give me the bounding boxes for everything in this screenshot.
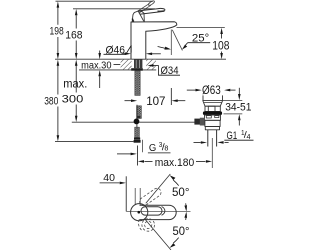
svg-text:3: 3 — [159, 140, 163, 149]
drain side knob — [194, 119, 200, 125]
svg-text:Ø63: Ø63 — [202, 85, 221, 97]
svg-text:198: 198 — [50, 26, 64, 38]
seal band — [203, 111, 222, 115]
dim 107 — [170, 88, 172, 105]
G3/8 leader arrow — [117, 153, 131, 155]
deck hatch left of shank — [121, 60, 132, 70]
svg-text:G: G — [149, 143, 156, 154]
lever ghost +50 — [140, 188, 161, 205]
svg-text:4: 4 — [247, 132, 251, 141]
25deg leader and arrow right — [185, 43, 187, 46]
svg-text:50°: 50° — [173, 225, 190, 238]
mounting nut — [131, 68, 143, 71]
lever pedestal — [132, 11, 144, 22]
dim max.180 — [137, 146, 139, 166]
dim 34-51 — [223, 99, 243, 101]
aerator stream line — [170, 30, 172, 56]
dim 380 below deck — [57, 66, 59, 95]
ref line top (lever raised top) — [56, 0, 154, 2]
svg-text:34-51: 34-51 — [225, 101, 251, 113]
drain flange cap — [203, 101, 223, 107]
hose tube below node — [136, 124, 138, 127]
O63 extension lines to flange — [202, 95, 204, 100]
drain centerline — [211, 138, 213, 168]
hidden verticals above ghost — [134, 188, 136, 205]
dim 168 — [75, 15, 77, 53]
faucet body and spout outline — [131, 22, 177, 60]
tailpipe — [207, 130, 209, 147]
drain neck — [205, 106, 220, 111]
plan body outline — [140, 205, 177, 219]
svg-text:50°: 50° — [172, 186, 190, 199]
svg-text:168: 168 — [65, 29, 82, 41]
white band — [205, 127, 219, 130]
ref line lever rest top — [73, 8, 155, 10]
hose end fitting — [134, 138, 140, 140]
rod linkage square — [137, 116, 140, 118]
svg-text:max.180: max.180 — [155, 157, 195, 169]
svg-text:380: 380 — [44, 95, 58, 107]
lever at rest — [138, 8, 165, 14]
lever ghost -50 — [139, 219, 155, 232]
rod node at hose — [134, 119, 140, 125]
pivot dot — [138, 211, 141, 214]
angle ray +50 — [146, 174, 171, 203]
svg-text:max.30: max.30 — [81, 61, 112, 72]
deck hatch right of shank — [146, 60, 156, 70]
hose end ext line — [142, 140, 144, 153]
svg-text:300: 300 — [62, 94, 84, 106]
svg-text:8: 8 — [164, 144, 168, 153]
plan body circle — [131, 204, 148, 221]
ref line 380 bottom — [55, 141, 134, 143]
dim 300 below deck — [75, 66, 77, 93]
dash after max.30 — [114, 64, 121, 66]
svg-text:107: 107 — [146, 94, 165, 108]
dim max.30 (deck thickness) — [99, 51, 101, 54]
angle arc lower with arrows — [173, 238, 178, 244]
deck top line — [55, 58, 226, 60]
lever raised phantom — [137, 0, 155, 13]
svg-text:108: 108 — [212, 38, 230, 52]
dim 108 — [177, 27, 225, 29]
lift knob — [208, 106, 215, 111]
25 deg tilted stream line — [172, 30, 182, 51]
supply hose braided lower (above rod node) — [137, 106, 142, 119]
svg-text:1: 1 — [241, 128, 245, 137]
lever tip outer arc — [162, 207, 165, 216]
plan centerline through view — [126, 210, 190, 212]
25deg arrow left — [158, 47, 166, 49]
svg-text:max.: max. — [63, 76, 87, 90]
pop-up rod horizontal — [72, 121, 195, 123]
drain lower body — [205, 120, 220, 126]
angle ray -50 — [145, 219, 172, 250]
supply hose braided upper — [135, 71, 140, 96]
supply hose braided lowest — [135, 127, 140, 137]
angle arc upper with arrows — [173, 180, 178, 186]
drain upper body with slots — [205, 115, 221, 120]
plan lever — [141, 207, 162, 215]
threaded shank through deck — [134, 59, 142, 68]
deck bottom line — [79, 69, 156, 71]
dim 198 — [57, 8, 59, 54]
